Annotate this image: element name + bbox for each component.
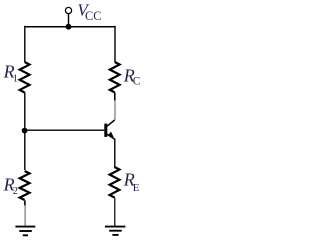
svg-text:C: C <box>133 75 141 87</box>
ground symbol right <box>105 226 126 228</box>
svg-text:2: 2 <box>13 186 18 197</box>
node junction dot (base divider tap) <box>22 128 28 134</box>
wire left rail lower (node to R2) <box>24 131 26 170</box>
transistor Q1 emitter arrow <box>108 132 114 138</box>
transistor Q1 collector lead <box>107 120 115 126</box>
power terminal VCC circle <box>65 7 71 13</box>
ground symbol left <box>15 226 35 228</box>
wire top horizontal bus <box>25 26 115 28</box>
wire base (node to transistor base) <box>25 129 105 131</box>
junction dot at VCC bus <box>66 24 72 30</box>
transistor Q1 emitter lead <box>107 134 115 139</box>
wire R2 to ground (thin) <box>24 200 26 205</box>
resistor RE <box>110 167 120 198</box>
resistor R2 <box>20 171 30 200</box>
resistor RC <box>110 62 120 92</box>
svg-text:CC: CC <box>85 9 101 23</box>
resistor R1 <box>20 62 30 93</box>
svg-text:E: E <box>133 182 140 194</box>
wire right rail upper (bus to RC) <box>114 26 116 62</box>
wire VCC stub <box>68 14 70 27</box>
wire left rail upper (bus to R1) <box>24 26 26 62</box>
wire RC lead lower <box>114 92 116 100</box>
wire left rail middle (R1 to node) <box>24 92 26 131</box>
svg-text:1: 1 <box>13 73 18 84</box>
wire emitter to RE <box>114 139 116 167</box>
wire RE to ground <box>114 197 116 226</box>
wire RC to collector (thin) <box>114 100 116 120</box>
transistor Q1 base bar <box>104 124 107 137</box>
